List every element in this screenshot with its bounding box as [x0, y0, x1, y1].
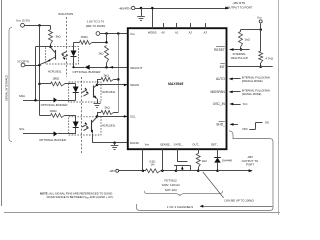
- wire SDA: [23, 100, 54, 102]
- node 150-ohm / 3k junction: [105, 41, 108, 44]
- wire SDAIN to IC: [97, 84, 128, 86]
- node DET junction: [216, 170, 219, 173]
- resistor R1 3k (SDA pullup): [49, 30, 53, 45]
- wire VDD to 4.7k: [260, 30, 262, 51]
- label SERIAL INTERFACE: [4, 75, 8, 101]
- svg-text:INT: INT: [220, 65, 225, 69]
- wire buffer A2 to U2 LED: [57, 100, 75, 102]
- wire R1 bottom to opto U1 collector: [50, 44, 52, 47]
- svg-text:N.C.: N.C.: [243, 102, 249, 106]
- wire -48V rail: [119, 170, 146, 172]
- svg-text:SCL: SCL: [19, 127, 25, 131]
- wire INT out: [228, 66, 273, 68]
- svg-text:1 OF 4 CHANNELS: 1 OF 4 CHANNELS: [167, 205, 193, 209]
- wire VDD right down: [260, 23, 262, 29]
- wire rail under FET: [176, 170, 198, 172]
- svg-text:SENSE_: SENSE_: [160, 142, 171, 146]
- svg-text:NOTE: ALL SIGNAL PINS ARE REFE: NOTE: ALL SIGNAL PINS ARE REFERENCED TO …: [40, 191, 113, 195]
- svg-text:SHD_: SHD_: [216, 123, 225, 127]
- svg-text:OUT_: OUT_: [192, 142, 200, 146]
- svg-text:SCL: SCL: [130, 115, 136, 119]
- opto U2 light arrows: [82, 90, 87, 93]
- wire U2 emitter to ground: [97, 99, 99, 104]
- node VDD2-R2 junction: [105, 32, 108, 35]
- svg-text:3kΩ: 3kΩ: [56, 35, 62, 39]
- arrow SHD_ (input): [230, 123, 234, 126]
- node U1 cathode junction: [72, 66, 74, 68]
- svg-text:-48V: -48V: [247, 155, 253, 159]
- svg-text:HCPL063L: HCPL063L: [48, 69, 62, 73]
- svg-text:ISOLATION: ISOLATION: [58, 12, 73, 16]
- svg-text:MIDSPAN: MIDSPAN: [211, 90, 226, 94]
- svg-text:1N4448: 1N4448: [222, 158, 233, 162]
- svg-text:3kΩ: 3kΩ: [103, 74, 109, 78]
- opto U3 LED: [75, 115, 77, 121]
- isolation barrier dashed line (upper): [66, 17, 68, 77]
- isolation barrier dashed line (lower): [81, 77, 83, 154]
- opto U3 phototransistor: [91, 120, 93, 132]
- node INT junction: [259, 66, 262, 69]
- svg-text:OFF: OFF: [242, 127, 248, 131]
- node SCL junction: [96, 115, 99, 118]
- svg-text:3kΩ: 3kΩ: [104, 105, 110, 109]
- wire U3 emitter to DGND line: [92, 133, 94, 142]
- node RESET junction: [240, 48, 243, 51]
- wire into R1 top: [50, 25, 52, 29]
- svg-text:DGND RANGE IS BETWEEN VEE AND: DGND RANGE IS BETWEEN VEE AND (AGND + 6V…: [47, 195, 114, 199]
- wire 150-ohm to U1 LED anode: [74, 42, 80, 44]
- svg-text:SDA: SDA: [19, 94, 25, 98]
- wire VEE pin down: [142, 149, 144, 171]
- node DGND junction: [113, 142, 116, 145]
- arrow SDAOUT direction: [110, 66, 114, 69]
- wire SENSE pin down: [162, 149, 164, 171]
- wire R5 to SDAOUT line: [106, 63, 108, 67]
- wire SCL: [23, 133, 54, 135]
- node VDD3.3 rail junction: [38, 24, 41, 27]
- arrow -48V OUTPUT TO PORT: [249, 169, 253, 172]
- node Q1 source junction: [175, 170, 178, 173]
- wire 150-ohm branch: [106, 34, 108, 43]
- wire RESET pin: [230, 49, 250, 51]
- opto U3 dashed package box: [69, 117, 101, 135]
- node SDAIN junction: [96, 84, 99, 87]
- wire VDD3.3 to 3k resistor: [24, 25, 50, 27]
- node AGND junction: [140, 7, 143, 10]
- resistor R5 3k (SDAOUT pullup): [105, 46, 109, 64]
- svg-text:150Ω: 150Ω: [81, 35, 89, 39]
- wire buffer A1 to SDAOUT pin: [90, 67, 128, 69]
- arrow -48V RTN OUTPUT TO PORT: [225, 7, 229, 10]
- ground DGND symbol: [114, 143, 116, 146]
- svg-text:AUTO: AUTO: [216, 77, 225, 81]
- resistor R10 1k (RESET pullup): [239, 32, 243, 48]
- wire VDD3.3 rail down (feeds 180-ohm resistors): [39, 25, 41, 115]
- svg-text:1kΩ: 1kΩ: [245, 37, 251, 41]
- wire rail to port: [218, 170, 252, 172]
- underbrace (per-channel components): [144, 191, 222, 196]
- svg-text:HCPL063L: HCPL063L: [102, 90, 116, 94]
- opto U1 phototransistor: [55, 50, 57, 60]
- opto U1 dashed package box: [46, 47, 79, 65]
- wire U1 LED cathode to buffer A1: [73, 64, 75, 68]
- svg-text:1kΩ: 1kΩ: [202, 159, 208, 163]
- svg-text:-48VRTN: -48VRTN: [119, 6, 131, 10]
- arrow MIDSPAN internal pulldown: [229, 91, 233, 94]
- svg-text:CAN BE UP TO 100kΩ: CAN BE UP TO 100kΩ: [224, 199, 254, 203]
- opto U2 dashed package box: [69, 82, 101, 102]
- wire R10 to RESET: [240, 47, 242, 50]
- svg-text:RESET: RESET: [214, 48, 225, 52]
- opto U1 LED: [73, 42, 75, 50]
- IC U4 MAX5945 body: [128, 28, 227, 149]
- wire SCL to IC: [97, 116, 128, 118]
- wire buffer A3 to U3 LED: [58, 133, 76, 135]
- wire VDD to 1k pullup: [241, 29, 261, 31]
- transistor Q1 n-channel MOSFET: [177, 149, 179, 162]
- svg-text:ON: ON: [265, 121, 269, 125]
- node VDD right junction: [259, 28, 262, 31]
- wire VCCRTN to opto U1 emitter: [25, 65, 40, 67]
- node VCCRTN-emitter junction: [38, 64, 41, 67]
- wire -48VRTN rail: [135, 8, 228, 10]
- node U1 collector: [49, 46, 52, 49]
- buffer A2 (optional, SDA): [54, 97, 58, 102]
- opto U2 LED: [75, 84, 77, 87]
- opto U2 phototransistor: [93, 86, 95, 98]
- node VEE junction: [142, 170, 145, 173]
- callout line CAN BE UP TO 100k: [203, 172, 224, 198]
- wire DGND to IC: [93, 142, 128, 144]
- wire VDD2 rail to IC VDD pin: [100, 33, 128, 35]
- svg-text:OSC_IN: OSC_IN: [213, 102, 226, 106]
- opto U3 light arrows: [82, 124, 87, 127]
- svg-text:PORT: PORT: [246, 163, 254, 167]
- svg-text:4.7kΩ: 4.7kΩ: [265, 56, 273, 60]
- node SENSE junction: [161, 170, 164, 173]
- svg-text:OUTPUT TO PORT: OUTPUT TO PORT: [227, 5, 253, 9]
- svg-text:180Ω: 180Ω: [52, 77, 60, 81]
- wire rail to diode: [198, 170, 217, 172]
- svg-text:SDAOUT: SDAOUT: [130, 66, 143, 70]
- 1-of-4-channels boundary line: [137, 131, 274, 211]
- node SDAOUT pullup junction: [105, 66, 108, 69]
- svg-text:FDT3612: FDT3612: [164, 179, 177, 183]
- ground AGND symbol: [141, 8, 143, 16]
- svg-text:HCPL063L: HCPL063L: [102, 123, 116, 127]
- svg-text:3kΩ: 3kΩ: [98, 52, 104, 56]
- node WDDIS junction: [151, 7, 154, 10]
- svg-text:DGND: DGND: [130, 141, 140, 145]
- svg-text:1%: 1%: [150, 162, 155, 166]
- arrow RESET (input): [230, 48, 234, 51]
- serial interface bracket: [9, 28, 12, 142]
- buffer A3 (optional, SCL): [54, 131, 58, 136]
- arrow SCL (input): [124, 115, 128, 118]
- svg-text:SERIAL INTERFACE: SERIAL INTERFACE: [4, 75, 8, 101]
- wire VDD2 right rail down: [118, 34, 120, 113]
- svg-text:OPTIONAL BUFFER: OPTIONAL BUFFER: [73, 70, 102, 74]
- svg-text:MAX5945: MAX5945: [168, 82, 184, 86]
- svg-text:-48V RTN: -48V RTN: [232, 1, 245, 5]
- node OUT junction: [197, 170, 200, 173]
- buffer A1 (optional, SDAOUT): [85, 65, 90, 70]
- wire U1 collector to SDA line: [36, 46, 51, 48]
- arrow AUTO internal pulldown: [229, 78, 233, 81]
- svg-text:OUTPUT TO: OUTPUT TO: [242, 159, 259, 163]
- arrow SDAIN (input): [124, 84, 128, 87]
- svg-text:OPTIONAL BUFFER: OPTIONAL BUFFER: [41, 103, 68, 107]
- svg-text:SDAIN: SDAIN: [130, 83, 139, 87]
- svg-text:GATE_: GATE_: [174, 142, 183, 146]
- resistor R11 4.7k (INT pullup): [259, 51, 263, 63]
- svg-text:1.8V TO 3.7V: 1.8V TO 3.7V: [87, 20, 104, 24]
- svg-text:SOT-223: SOT-223: [165, 188, 177, 192]
- wire R11 to INT line: [260, 63, 262, 67]
- opto U1 light arrows: [62, 52, 67, 55]
- wire U1 emitter to VCCRTN: [40, 61, 48, 64]
- node VDD2 right-rail junction: [117, 32, 120, 35]
- arrow OSC_IN N.C.: [229, 103, 233, 106]
- node SDA junction: [34, 99, 37, 102]
- svg-text:-48V: -48V: [109, 169, 115, 173]
- resistor R13 1k (can be up to 100k): [198, 149, 200, 153]
- diode D1 1N4448: [217, 149, 219, 157]
- svg-text:180Ω: 180Ω: [50, 109, 58, 113]
- svg-text:OPTIONAL BUFFER: OPTIONAL BUFFER: [39, 138, 66, 142]
- ground (U2 emitter DGND): [94, 103, 101, 105]
- svg-text:100V, 130mΩ: 100V, 130mΩ: [162, 183, 181, 187]
- svg-text:DET_: DET_: [211, 142, 219, 146]
